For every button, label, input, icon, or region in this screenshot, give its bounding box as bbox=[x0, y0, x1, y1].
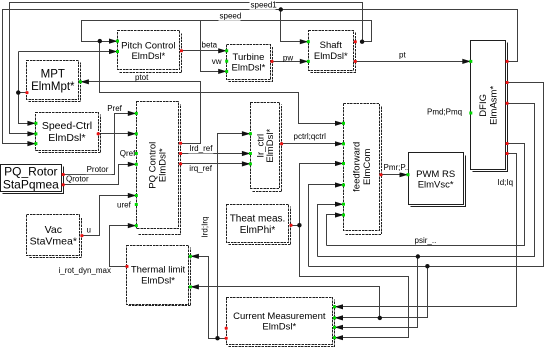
svg-text:Shaft: Shaft bbox=[320, 40, 343, 51]
pin Current Measurement outputs bbox=[225, 327, 228, 330]
wire speed net: shaft out1 up to top line A, left and down to Speed-Ctrl in2 bbox=[10, 3, 363, 134]
svg-text:pt: pt bbox=[399, 51, 406, 60]
pin Theat meas output bbox=[290, 224, 293, 227]
svg-text:ElmDsl*: ElmDsl* bbox=[48, 132, 85, 144]
wire speed1 net: DFIG speed out right, up to line B, far left, down to Speed-Ctrl in3 bbox=[3, 10, 518, 144]
svg-text:ElmDsl*: ElmDsl* bbox=[158, 148, 169, 182]
svg-text:Turbine: Turbine bbox=[233, 52, 265, 63]
junction node shaft speed out bbox=[360, 40, 364, 44]
svg-text:pw: pw bbox=[283, 53, 293, 62]
block MPT ElmMpt* bbox=[27, 61, 79, 100]
pin feedforward output bbox=[380, 173, 383, 176]
svg-text:speed: speed bbox=[220, 11, 242, 20]
wire line2 riser to feedforward in5 bbox=[318, 205, 344, 257]
svg-text:MPT: MPT bbox=[41, 69, 65, 81]
junction node line2 bbox=[416, 254, 420, 258]
block Pitch Control ElmDsl* bbox=[118, 31, 180, 70]
wire speed branch down to Turbine in3 bbox=[201, 21, 227, 72]
junction node CM out2 bbox=[215, 336, 219, 340]
svg-text:ElmDsl*: ElmDsl* bbox=[232, 63, 266, 74]
block Current Measurement ElmDsl* bbox=[227, 298, 333, 345]
wire line3 riser to feedforward in4 bbox=[309, 185, 344, 267]
junction node MPT out bbox=[16, 90, 20, 94]
pin DFIG input Pmd;Pmq (unwired) bbox=[469, 112, 472, 115]
label Pmr;P.. bbox=[383, 164, 406, 173]
svg-text:pctrl;qctrl: pctrl;qctrl bbox=[294, 132, 327, 141]
svg-text:Vac: Vac bbox=[45, 224, 62, 236]
wire Qrotor: PQ_Rotor out2 up to PQ Control in4 bbox=[64, 165, 137, 185]
pin Ir_ctrl inputs bbox=[242, 131, 251, 136]
wire psir riser to feedforward in6 bbox=[327, 215, 344, 246]
pin Pitch Control inputs bbox=[109, 39, 118, 44]
junction node CM in2 line bbox=[378, 316, 382, 320]
svg-text:ElmMpt*: ElmMpt* bbox=[31, 81, 75, 93]
svg-text:ElmDsl*: ElmDsl* bbox=[265, 129, 276, 163]
wire speed branch from junction down, right, down to feedforward in1 bbox=[100, 42, 344, 124]
wire Irq_ref: PQ Control out3 to Ir_ctrl in3 bbox=[181, 163, 251, 165]
wire line2 branch down to Current Measurement in3 bbox=[335, 257, 418, 328]
pin Thermal limit output bbox=[126, 265, 129, 268]
block Vac StaVmea* bbox=[27, 215, 80, 256]
pin feedforward inputs bbox=[335, 121, 344, 126]
wire Pmr;P..: feedforward out to PWM RS in bbox=[381, 174, 409, 176]
block Speed-Ctrl ElmDsl* bbox=[36, 113, 99, 151]
block Shaft ElmDsl* bbox=[309, 31, 354, 71]
wire ptot: PQ Control out1 up and left to MPT input bbox=[81, 82, 201, 144]
svg-text:vw: vw bbox=[212, 57, 222, 66]
wire Ird;Irq: CM out2 left, up to Thermal limit in1 bbox=[191, 257, 227, 339]
svg-text:Id;Iq: Id;Iq bbox=[498, 178, 514, 187]
svg-text:ElmCom: ElmCom bbox=[362, 148, 373, 185]
junction node line3 bbox=[425, 264, 429, 268]
wire MPT output left bbox=[19, 92, 27, 94]
svg-text:Pref: Pref bbox=[107, 104, 122, 113]
block PWM RS ElmVsc* bbox=[409, 153, 464, 205]
pin Vac output bbox=[80, 234, 83, 237]
svg-text:Pmr;P..: Pmr;P.. bbox=[384, 163, 410, 172]
wire Theat net up to feedforward in3 bbox=[300, 164, 344, 226]
wire line3 branch down to Current Measurement in2 bbox=[335, 267, 428, 318]
block Thermal limit ElmDsl* bbox=[127, 246, 189, 305]
svg-text:PWM RS: PWM RS bbox=[416, 169, 455, 180]
wire u: Vac output up to PQ Control in5 bbox=[82, 196, 137, 236]
wire MPT net to Pitch Control in2 bbox=[19, 51, 118, 53]
pin PWM RS input bbox=[400, 172, 409, 177]
wire branch from CM in2 net to Thermal limit in2 bbox=[191, 287, 380, 318]
svg-text:beta: beta bbox=[202, 40, 218, 49]
label irq_ref bbox=[188, 165, 213, 174]
svg-text:psir_..: psir_.. bbox=[415, 236, 437, 245]
wire DFIG out3 loop down to line2 bbox=[318, 104, 535, 257]
junction node Theat out bbox=[297, 223, 301, 227]
wire pt: Shaft out2 to DFIG in bbox=[356, 61, 471, 63]
svg-text:Protor: Protor bbox=[87, 165, 109, 174]
label speed bbox=[219, 12, 241, 21]
wire speed net line C: to Pitch Control in1 bbox=[82, 21, 372, 42]
svg-text:Qref: Qref bbox=[120, 149, 136, 158]
svg-text:speed1: speed1 bbox=[251, 0, 278, 9]
block Theat meas. ElmPhi* bbox=[227, 205, 289, 243]
pin Shaft inputs bbox=[300, 39, 309, 44]
svg-text:StaVmea*: StaVmea* bbox=[30, 236, 77, 248]
pin DFIG outputs bbox=[506, 60, 509, 63]
svg-text:Pitch Control: Pitch Control bbox=[121, 40, 175, 51]
pin Pitch Control output bbox=[180, 49, 183, 52]
pin Turbine inputs bbox=[218, 48, 227, 53]
label Qrotor bbox=[65, 175, 91, 184]
svg-text:Thermal limit: Thermal limit bbox=[131, 265, 186, 276]
wire Speed-Ctrl output to PQ Control in2 bbox=[99, 133, 137, 135]
svg-text:ElmDsl*: ElmDsl* bbox=[131, 51, 165, 62]
label Protor bbox=[86, 165, 112, 174]
wire Theat net down and around to Current Measurement in4 bbox=[300, 226, 409, 338]
svg-text:Speed-Ctrl: Speed-Ctrl bbox=[42, 120, 92, 132]
block PQ Control ElmDsl* (rotated) bbox=[137, 102, 179, 229]
wire pw: Turbine out to Shaft in2 bbox=[273, 61, 309, 63]
wire speed1 branch down to Shaft in1 bbox=[281, 10, 309, 42]
svg-text:irq_ref: irq_ref bbox=[189, 164, 212, 173]
pin PQ_Rotor outputs bbox=[62, 173, 65, 176]
svg-text:ElmDsl*: ElmDsl* bbox=[314, 51, 348, 62]
junction node speed1/shaft bbox=[279, 7, 283, 11]
svg-text:ElmVsc*: ElmVsc* bbox=[418, 180, 454, 191]
pin Shaft outputs bbox=[354, 40, 357, 43]
pin Turbine output bbox=[271, 60, 274, 63]
svg-text:i_rot_dyn_max: i_rot_dyn_max bbox=[59, 266, 111, 275]
wire Theat meas output bbox=[291, 225, 300, 227]
block DFIG ElmAsm* (rotated) bbox=[471, 41, 506, 170]
svg-text:Ird;Irq: Ird;Irq bbox=[201, 217, 210, 238]
wire Protor: PQ_Rotor out1 up to PQ Control in1 bbox=[64, 114, 137, 175]
pin Speed-Ctrl inputs bbox=[27, 121, 36, 126]
svg-text:ElmPhi*: ElmPhi* bbox=[240, 225, 276, 236]
pin PQ Control outputs bbox=[179, 142, 182, 145]
svg-text:Theat meas.: Theat meas. bbox=[230, 214, 286, 225]
pin DFIG input pt bbox=[462, 59, 471, 64]
pin MPT output bbox=[26, 91, 29, 94]
svg-text:Ird_ref: Ird_ref bbox=[189, 144, 213, 153]
svg-text:StaPqmea: StaPqmea bbox=[3, 177, 59, 191]
wire Ird_ref: PQ Control out2 to Ir_ctrl in2 bbox=[181, 153, 251, 155]
wire pctrl;qctrl: Ir_ctrl out to feedforward in2 bbox=[282, 143, 344, 145]
wire MPT net riser down to Speed-Ctrl in1 bbox=[19, 52, 36, 124]
block PQ_Rotor StaPqmea bbox=[1, 165, 62, 192]
wire Ird;Irq branch up to Ir_ctrl in1 bbox=[218, 134, 251, 339]
pin Ir_ctrl output bbox=[280, 142, 283, 145]
wire psir_: DFIG out4 loop down to psir line bbox=[327, 144, 525, 246]
svg-text:ElmDsl*: ElmDsl* bbox=[141, 275, 175, 286]
svg-text:Pmd;Pmq: Pmd;Pmq bbox=[427, 108, 462, 117]
wire i_rot_dyn_max: Thermal limit out up to PQ Control in7 bbox=[110, 226, 137, 267]
svg-text:Qrotor: Qrotor bbox=[66, 175, 89, 184]
svg-text:ptot: ptot bbox=[135, 73, 149, 82]
block Turbine ElmDsl* bbox=[227, 45, 271, 80]
pin MPT input bbox=[80, 79, 89, 84]
wire beta: Pitch Control out to Turbine in1 bbox=[182, 50, 227, 52]
block feedforward ElmCom (rotated) bbox=[344, 104, 380, 231]
svg-text:Current Measurement: Current Measurement bbox=[233, 311, 326, 322]
junction node pitch in1 bbox=[98, 39, 102, 43]
svg-text:ElmDsl*: ElmDsl* bbox=[262, 322, 296, 333]
wire Id;Iq: DFIG out5 loop down to Current Measurement in1 bbox=[335, 154, 517, 307]
label Ird_ref bbox=[188, 144, 213, 153]
pin PQ Control inputs bbox=[128, 111, 137, 116]
block Ir_ctrl ElmDsl* (rotated) bbox=[251, 103, 280, 189]
svg-text:u: u bbox=[87, 226, 91, 235]
pin Thermal limit inputs bbox=[190, 254, 199, 259]
wire DFIG out2 right edge loop down to line3 bbox=[309, 83, 544, 267]
svg-text:uref: uref bbox=[117, 201, 132, 210]
pin Current Measurement inputs bbox=[335, 304, 344, 309]
pin Speed-Ctrl output bbox=[97, 132, 100, 135]
svg-text:ElmAsm*: ElmAsm* bbox=[488, 86, 499, 125]
label speed1 bbox=[250, 1, 276, 10]
